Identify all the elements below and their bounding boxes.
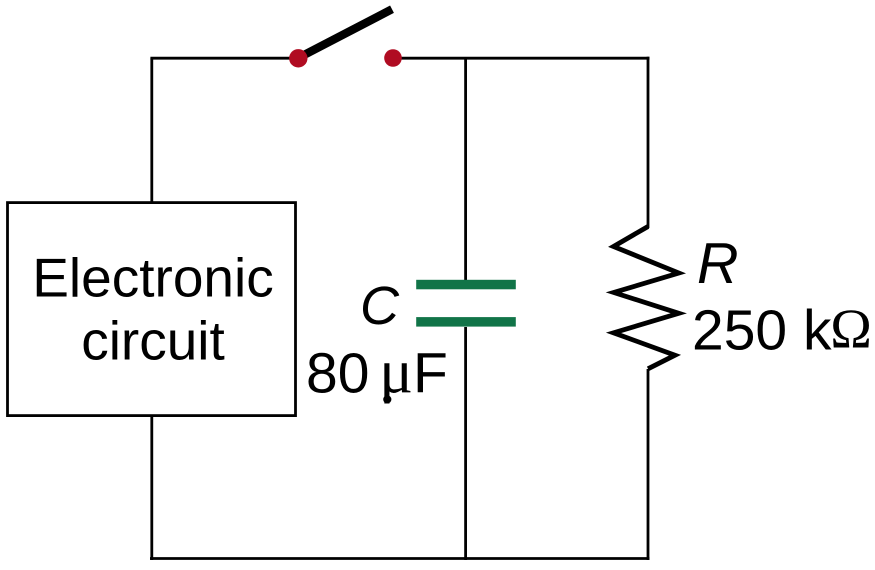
svg-text:R: R xyxy=(697,232,739,296)
wire: right vertical upper (top rail to resistor) xyxy=(647,57,650,228)
switch contact dot left xyxy=(289,49,307,67)
switch arm (open blade) xyxy=(299,9,392,57)
svg-text:Electronic: Electronic xyxy=(32,247,273,309)
mu teardrop detail xyxy=(383,395,391,403)
capacitor C bottom plate xyxy=(416,317,516,327)
svg-text:circuit: circuit xyxy=(81,310,225,372)
wire: top rail right segment from switch to right corner xyxy=(393,57,650,60)
svg-text:Ω: Ω xyxy=(830,298,872,360)
svg-text:C: C xyxy=(360,276,400,336)
wire: bottom rail xyxy=(150,557,650,560)
switch contact dot right xyxy=(384,49,402,67)
wire: left vertical (box top to top rail) xyxy=(150,58,153,203)
mu descender trim xyxy=(380,404,396,410)
capacitor C top plate xyxy=(416,280,516,290)
resistor R zigzag xyxy=(614,227,679,369)
wire: capacitor branch top vertical xyxy=(464,58,467,280)
wire: capacitor branch bottom vertical xyxy=(464,327,467,560)
electronic circuit box xyxy=(8,203,296,416)
svg-text:250 k: 250 k xyxy=(692,299,832,363)
wire: top rail left segment to switch xyxy=(150,57,298,60)
wire: right vertical lower (resistor to bottom rail) xyxy=(647,369,650,560)
wire: left vertical (box bottom to bottom rail) xyxy=(150,415,153,560)
svg-text:80 μF: 80 μF xyxy=(306,337,448,407)
